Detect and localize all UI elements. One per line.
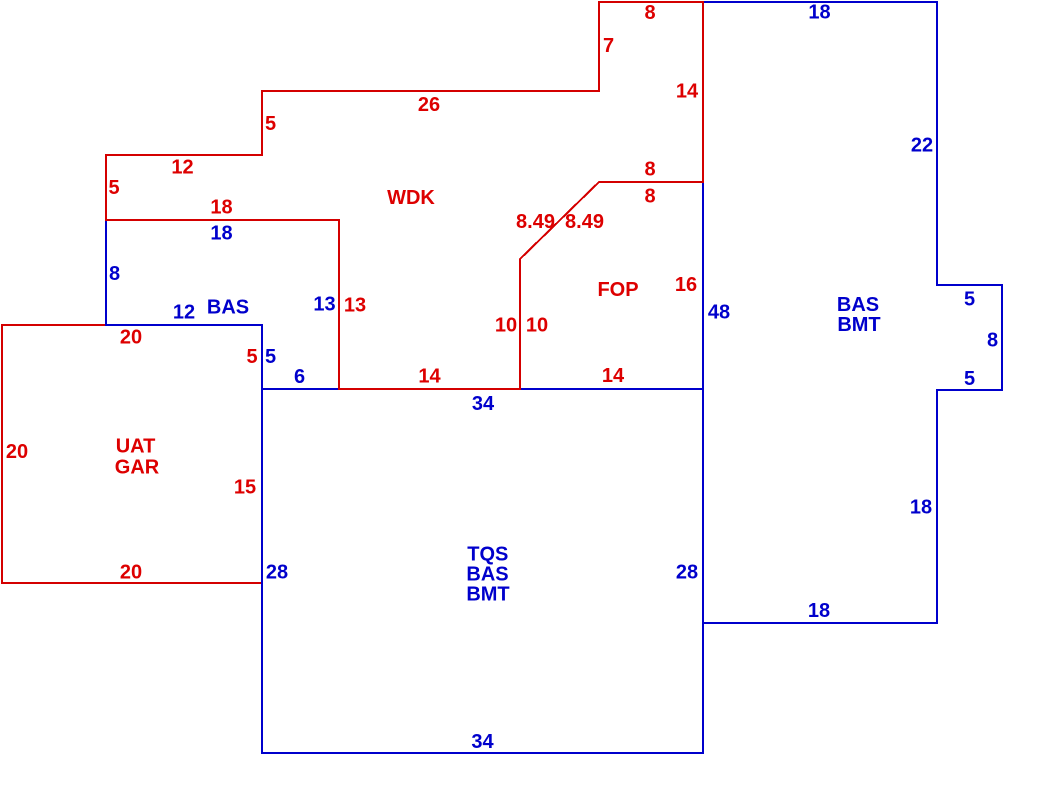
svg-text:18: 18: [210, 222, 232, 244]
svg-text:BAS: BAS: [837, 294, 879, 316]
svg-text:8: 8: [987, 329, 998, 351]
svg-text:UAT: UAT: [116, 436, 156, 458]
svg-text:8.49: 8.49: [565, 211, 604, 233]
svg-text:6: 6: [294, 366, 305, 388]
svg-text:18: 18: [210, 196, 232, 218]
svg-text:13: 13: [313, 293, 335, 315]
svg-text:GAR: GAR: [115, 456, 160, 478]
svg-text:28: 28: [676, 561, 698, 583]
area BAS outline (blue): [106, 220, 339, 389]
area TQS BAS BMT outline (blue): [262, 389, 703, 753]
svg-text:5: 5: [265, 113, 276, 135]
svg-text:16: 16: [675, 274, 697, 296]
svg-text:10: 10: [526, 314, 548, 336]
svg-text:14: 14: [602, 365, 625, 387]
svg-text:WDK: WDK: [387, 187, 435, 209]
svg-text:8.49: 8.49: [516, 211, 555, 233]
svg-text:7: 7: [603, 35, 614, 57]
svg-text:26: 26: [418, 94, 440, 116]
svg-text:18: 18: [910, 496, 932, 518]
svg-text:8: 8: [644, 2, 655, 24]
svg-text:12: 12: [173, 301, 195, 323]
area FOP outline (red): [520, 182, 703, 389]
svg-text:14: 14: [676, 80, 699, 102]
svg-text:5: 5: [246, 346, 257, 368]
svg-text:BAS: BAS: [466, 563, 508, 585]
svg-text:20: 20: [6, 441, 28, 463]
svg-text:8: 8: [644, 185, 655, 207]
svg-text:5: 5: [964, 368, 975, 390]
svg-text:8: 8: [109, 263, 120, 285]
svg-text:15: 15: [234, 476, 256, 498]
svg-text:BMT: BMT: [837, 314, 880, 336]
svg-text:13: 13: [344, 294, 366, 316]
svg-text:BAS: BAS: [207, 296, 249, 318]
svg-text:34: 34: [471, 731, 494, 753]
svg-text:14: 14: [418, 365, 441, 387]
svg-text:22: 22: [911, 134, 933, 156]
svg-text:20: 20: [120, 561, 142, 583]
svg-text:10: 10: [495, 314, 517, 336]
svg-text:BMT: BMT: [466, 583, 509, 605]
svg-text:5: 5: [964, 288, 975, 310]
svg-text:28: 28: [266, 561, 288, 583]
svg-text:18: 18: [808, 2, 830, 24]
area WDK outline (red): [106, 2, 703, 389]
area BAS BMT outline (blue): [703, 2, 1002, 623]
svg-text:34: 34: [472, 393, 495, 415]
svg-text:18: 18: [808, 600, 830, 622]
svg-text:8: 8: [644, 158, 655, 180]
svg-text:20: 20: [120, 326, 142, 348]
svg-text:48: 48: [708, 301, 730, 323]
svg-text:FOP: FOP: [597, 279, 638, 301]
svg-text:12: 12: [171, 156, 193, 178]
svg-text:5: 5: [108, 177, 119, 199]
svg-text:TQS: TQS: [467, 543, 508, 565]
svg-text:5: 5: [265, 346, 276, 368]
area UAT GAR outline (red): [2, 325, 262, 583]
